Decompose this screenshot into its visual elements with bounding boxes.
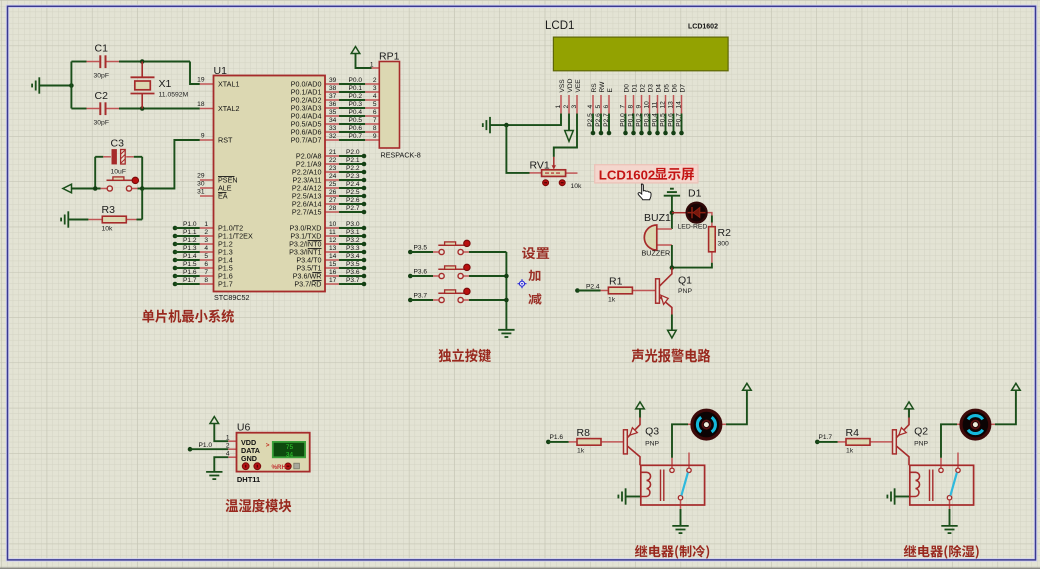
node P0.6 (671, 131, 676, 136)
wire (707, 213, 712, 216)
svg-text:Q1: Q1 (678, 275, 692, 287)
svg-text:P3.0: P3.0 (346, 221, 360, 228)
wire (505, 252, 507, 330)
svg-text:24: 24 (329, 173, 337, 180)
emitter arrow (661, 295, 668, 304)
wire (175, 283, 200, 285)
wire (671, 197, 673, 230)
wire contact pin (940, 458, 942, 468)
wire (671, 245, 673, 268)
label text: 加 (528, 270, 540, 281)
power (1012, 383, 1021, 390)
wire (339, 283, 362, 285)
ground (672, 526, 688, 533)
svg-text:30: 30 (197, 181, 205, 188)
cursor hand (638, 184, 651, 200)
wire lcd pin D6 (673, 95, 675, 114)
wire lcd pin D7 (681, 95, 683, 114)
wire pin1 (372, 67, 380, 69)
wire (200, 243, 214, 245)
node P2.7 (362, 210, 367, 215)
ground (206, 472, 222, 479)
svg-text:4: 4 (587, 105, 594, 109)
ground (61, 211, 68, 227)
node P3.2 (362, 242, 367, 247)
svg-text:P2.1: P2.1 (346, 157, 360, 164)
node P1.0 (188, 447, 193, 452)
svg-text:P3.6: P3.6 (414, 269, 428, 276)
node P0.2 (639, 131, 644, 136)
node P3.7 (362, 282, 367, 287)
node P2.6 (362, 202, 367, 207)
svg-text:LCD1: LCD1 (545, 20, 574, 32)
svg-text:C2: C2 (95, 90, 109, 102)
svg-text:14: 14 (675, 101, 682, 109)
svg-text:P1.7: P1.7 (218, 280, 233, 289)
wire P2.6 (325, 203, 339, 205)
wire (673, 114, 675, 134)
wire (672, 263, 712, 268)
svg-text:P2.3: P2.3 (346, 173, 360, 180)
svg-text:1: 1 (226, 435, 230, 442)
button P3.7 (438, 288, 470, 302)
relay box (910, 465, 974, 505)
svg-text:P1.3: P1.3 (183, 245, 197, 252)
svg-text:29: 29 (197, 173, 205, 180)
node P2.5 (362, 194, 367, 199)
wire (339, 171, 362, 173)
svg-text:26: 26 (329, 189, 337, 196)
svg-text:P3.2: P3.2 (346, 237, 360, 244)
wire (608, 114, 610, 134)
svg-text:RW: RW (599, 81, 606, 93)
wire lcd pin E (608, 95, 610, 114)
svg-text:P3.5: P3.5 (346, 261, 360, 268)
terminal ground arrow (668, 330, 677, 338)
wire P3.1 (325, 235, 339, 237)
svg-text:XTAL1: XTAL1 (218, 80, 239, 89)
svg-text:D6: D6 (672, 84, 679, 93)
power (905, 402, 914, 409)
wire P2.3 (325, 179, 339, 181)
svg-text:7: 7 (619, 105, 626, 109)
svg-text:VSS: VSS (559, 79, 566, 93)
svg-text:1k: 1k (608, 297, 616, 304)
svg-text:11: 11 (651, 101, 658, 108)
svg-text:28: 28 (329, 205, 337, 212)
wire (711, 223, 713, 227)
relay core (930, 470, 933, 502)
svg-text:RV1: RV1 (530, 160, 550, 172)
wire (141, 189, 143, 220)
svg-text:D2: D2 (640, 84, 647, 93)
svg-text:P0.4: P0.4 (651, 113, 658, 127)
svg-text:R8: R8 (577, 427, 591, 439)
wire (142, 140, 200, 189)
svg-text:P2.0: P2.0 (346, 149, 360, 156)
transistor Q3 PNP (624, 430, 628, 454)
svg-text:8: 8 (204, 277, 208, 284)
svg-text:R3: R3 (102, 204, 116, 216)
svg-text:2: 2 (373, 77, 377, 84)
svg-text:P0.4: P0.4 (349, 109, 363, 116)
svg-text:P0.6: P0.6 (667, 113, 674, 127)
wire emitter (896, 418, 909, 438)
svg-text:30pF: 30pF (94, 120, 110, 127)
svg-text:D7: D7 (680, 84, 687, 93)
node P1.1 (173, 234, 178, 239)
svg-text:P2.4: P2.4 (346, 181, 360, 188)
svg-text:Q3: Q3 (645, 426, 659, 438)
ground (483, 117, 490, 133)
svg-text:LCD1602: LCD1602 (599, 168, 655, 183)
wire (641, 114, 643, 134)
svg-text:16: 16 (329, 269, 337, 276)
contact NO (670, 468, 674, 472)
svg-text:38: 38 (329, 85, 337, 92)
svg-text:P0.0: P0.0 (349, 77, 363, 84)
svg-text:P1.5: P1.5 (183, 261, 197, 268)
svg-text:P3.3: P3.3 (346, 245, 360, 252)
wire (506, 125, 529, 173)
node P2.2 (362, 170, 367, 175)
svg-text:1k: 1k (577, 448, 585, 455)
ground (887, 488, 894, 504)
wire (228, 456, 236, 458)
wire P3.2 (325, 243, 339, 245)
node P1.2 (173, 242, 178, 247)
emitter arrow (899, 428, 906, 435)
wire lcd pin D5 (665, 95, 667, 114)
svg-text:4: 4 (373, 93, 377, 100)
svg-text:10: 10 (329, 221, 337, 228)
svg-text:6: 6 (204, 261, 208, 268)
wire (339, 131, 365, 133)
wire (339, 163, 362, 165)
resistor R2 (709, 227, 716, 252)
node P2.1 (362, 162, 367, 167)
wire (469, 275, 506, 277)
wire (339, 155, 362, 157)
wire (175, 251, 200, 253)
svg-text:21: 21 (329, 149, 337, 156)
wire P2.7 (325, 211, 339, 213)
wire (175, 243, 200, 245)
svg-text:34: 34 (286, 451, 294, 458)
wire (228, 440, 236, 442)
svg-text:32: 32 (329, 133, 337, 140)
wire emitter (659, 297, 672, 315)
wire (228, 448, 236, 450)
node P2.3 (362, 178, 367, 183)
svg-text:9: 9 (373, 133, 377, 140)
capacitor C3 (112, 150, 117, 165)
svg-text:6: 6 (373, 109, 377, 116)
wire (941, 424, 957, 457)
svg-text:VEE: VEE (575, 79, 582, 93)
wire (410, 251, 433, 253)
wire (469, 299, 506, 301)
svg-text:2: 2 (226, 443, 230, 450)
node P0.7 (679, 131, 684, 136)
power (743, 383, 752, 390)
svg-text:P3.5: P3.5 (414, 245, 428, 252)
svg-text:%RH: %RH (272, 464, 287, 471)
svg-text:P1.7: P1.7 (819, 434, 833, 441)
svg-text:P0.7/AD7: P0.7/AD7 (291, 136, 322, 145)
svg-text:PNP: PNP (914, 441, 928, 448)
wire (339, 195, 362, 197)
wire (339, 235, 362, 237)
wire (71, 108, 86, 110)
wire (566, 172, 578, 174)
wire (200, 251, 214, 253)
dht display (273, 442, 305, 457)
wire VDD (568, 114, 570, 131)
wire emitter (627, 418, 640, 438)
svg-text:D3: D3 (648, 84, 655, 93)
wire (190, 62, 200, 85)
wire (200, 235, 214, 237)
node junction (504, 298, 509, 303)
node P1.3 (173, 250, 178, 255)
capacitor C1 (100, 55, 105, 68)
contact NC (687, 468, 691, 472)
wire motor pin (722, 423, 727, 425)
wire (680, 500, 682, 509)
wire (895, 496, 910, 498)
svg-text:D1: D1 (688, 188, 702, 200)
svg-text:9: 9 (201, 133, 205, 140)
node P1.5 (173, 266, 178, 271)
dht dot3 (285, 463, 291, 469)
svg-text:14: 14 (329, 253, 337, 260)
wire PSEN (200, 179, 214, 181)
svg-text:11.0592M: 11.0592M (159, 92, 189, 99)
svg-text:P2.7: P2.7 (603, 113, 610, 127)
svg-text:R4: R4 (846, 427, 860, 439)
node P0.1 (631, 131, 636, 136)
node junction (670, 210, 675, 215)
svg-text:36: 36 (329, 101, 337, 108)
wire P0.2 (325, 99, 339, 101)
wire (356, 54, 372, 69)
svg-text:6: 6 (603, 105, 610, 109)
contact NC (956, 468, 960, 472)
wire (94, 157, 96, 189)
svg-text:2: 2 (563, 105, 570, 109)
svg-text:19: 19 (197, 77, 205, 84)
wire (214, 424, 228, 442)
wire (908, 409, 910, 418)
wire (339, 275, 362, 277)
wire lcd pin VEE (576, 95, 578, 114)
svg-text:13: 13 (329, 245, 337, 252)
svg-text:P2.6: P2.6 (346, 197, 360, 204)
svg-text:P0.0: P0.0 (619, 113, 626, 127)
wire (137, 219, 143, 221)
node P2.0 (362, 154, 367, 159)
ground (618, 488, 625, 504)
wire (625, 114, 627, 134)
svg-text:C3: C3 (111, 138, 125, 150)
wire (339, 267, 362, 269)
wire (200, 267, 214, 269)
svg-text:R2: R2 (718, 227, 732, 239)
node P3.4 (362, 258, 367, 263)
svg-text:P1.1: P1.1 (183, 229, 197, 236)
svg-text:RST: RST (218, 136, 233, 145)
svg-text:33: 33 (329, 125, 337, 132)
wire (214, 457, 228, 471)
relay box (641, 465, 705, 505)
svg-text:P1.7: P1.7 (183, 277, 197, 284)
wire (175, 235, 200, 237)
svg-text:P1.6: P1.6 (183, 269, 197, 276)
relay switch blade (681, 473, 688, 496)
led D1 LED-RED (687, 203, 707, 223)
svg-text:12: 12 (659, 101, 666, 109)
label text: 继电器(制冷) (635, 545, 709, 559)
node P3.5 (408, 250, 413, 255)
wire lcd pin D4 (657, 95, 659, 114)
node P0.0 (623, 131, 628, 136)
wire (141, 94, 143, 109)
svg-text:17: 17 (329, 277, 337, 284)
svg-text:D4: D4 (656, 84, 663, 93)
wire P0.7 (325, 139, 339, 141)
node P1.4 (173, 258, 178, 263)
relay core (661, 470, 664, 502)
node P3.7 (408, 298, 413, 303)
svg-text:X1: X1 (159, 78, 172, 90)
svg-text:3: 3 (373, 85, 377, 92)
wire motor pin (688, 423, 692, 425)
buzzer BUZ1 (644, 225, 657, 250)
svg-text:1: 1 (370, 62, 374, 69)
wire (681, 114, 683, 134)
svg-text:C1: C1 (95, 43, 109, 55)
wire (995, 391, 1016, 425)
transistor Q2 PNP (893, 430, 897, 454)
node P1.0 (173, 226, 178, 231)
node P3.6 (408, 274, 413, 279)
svg-text:RP1: RP1 (379, 51, 400, 63)
dht dot2 (254, 463, 261, 470)
node P0.5 (663, 131, 668, 136)
svg-text:11: 11 (329, 229, 336, 236)
lcd LCD1 screen (553, 37, 728, 71)
node P3.5 (362, 266, 367, 271)
wire (726, 391, 747, 425)
wire (949, 509, 951, 526)
wire (119, 108, 200, 110)
wire collector (659, 268, 672, 287)
svg-text:P3.1: P3.1 (346, 229, 360, 236)
relay coil (910, 472, 920, 496)
node P2.6 (599, 131, 604, 136)
svg-text:12: 12 (329, 237, 337, 244)
transistor Q1 PNP (656, 279, 660, 303)
svg-text:D1: D1 (632, 84, 639, 93)
node P2.4 (362, 186, 367, 191)
node junction (69, 83, 74, 88)
wire (339, 203, 362, 205)
wire (671, 315, 673, 331)
wire (175, 275, 200, 277)
svg-text:P3.7: P3.7 (414, 293, 428, 300)
wire lcd pin RW (600, 95, 602, 114)
crystal X1 (131, 77, 155, 93)
svg-text:P1.4: P1.4 (183, 253, 197, 260)
svg-text:35: 35 (329, 109, 337, 116)
svg-text:XTAL2: XTAL2 (218, 104, 239, 113)
wire collector (896, 446, 909, 465)
wire P2.4 (325, 187, 339, 189)
resistor R8 (577, 439, 601, 446)
svg-text:8: 8 (627, 105, 634, 109)
wire (138, 188, 143, 190)
node junction (504, 123, 509, 128)
wire (39, 85, 71, 87)
wire (410, 299, 433, 301)
button P3.6 (438, 264, 470, 278)
svg-text:P0.7: P0.7 (349, 133, 363, 140)
svg-text:23: 23 (329, 165, 337, 172)
wire stub (688, 453, 690, 469)
wire (200, 259, 214, 261)
svg-text:P3.6: P3.6 (346, 269, 360, 276)
wire (339, 227, 362, 229)
svg-text:P0.3: P0.3 (643, 113, 650, 127)
wire (87, 61, 100, 63)
wire (577, 290, 600, 292)
wire (949, 500, 951, 509)
wire P0.3 (325, 107, 339, 109)
mcu U1 STC89C52 (214, 76, 326, 292)
node P1.7 (173, 282, 178, 287)
svg-text:P2.2: P2.2 (346, 165, 360, 172)
wire (141, 157, 143, 189)
label text: 独立按键 (438, 349, 490, 363)
wire (175, 259, 200, 261)
svg-text:4: 4 (226, 451, 230, 458)
potentiometer RV1 (542, 170, 566, 177)
power (664, 189, 680, 196)
wire (672, 424, 688, 457)
wire (200, 283, 214, 285)
dht icon (294, 463, 300, 469)
svg-text:31: 31 (197, 189, 205, 196)
svg-text:10k: 10k (102, 226, 114, 233)
svg-text:10uF: 10uF (111, 169, 127, 176)
svg-text:RS: RS (591, 83, 598, 93)
wire to LED (672, 212, 687, 214)
wire P2.0 (325, 155, 339, 157)
node junction (140, 106, 145, 111)
wire (553, 157, 555, 166)
wire motor pin (957, 423, 961, 425)
svg-text:P3.4: P3.4 (346, 253, 360, 260)
wire lcd pin VDD (568, 95, 570, 114)
dht dot1 (242, 463, 249, 470)
node junction (93, 186, 98, 191)
svg-text:7: 7 (204, 269, 208, 276)
wire (68, 219, 88, 221)
wire P2.5 (325, 195, 339, 197)
button reset (107, 177, 139, 191)
svg-text:P2.5: P2.5 (587, 113, 594, 127)
